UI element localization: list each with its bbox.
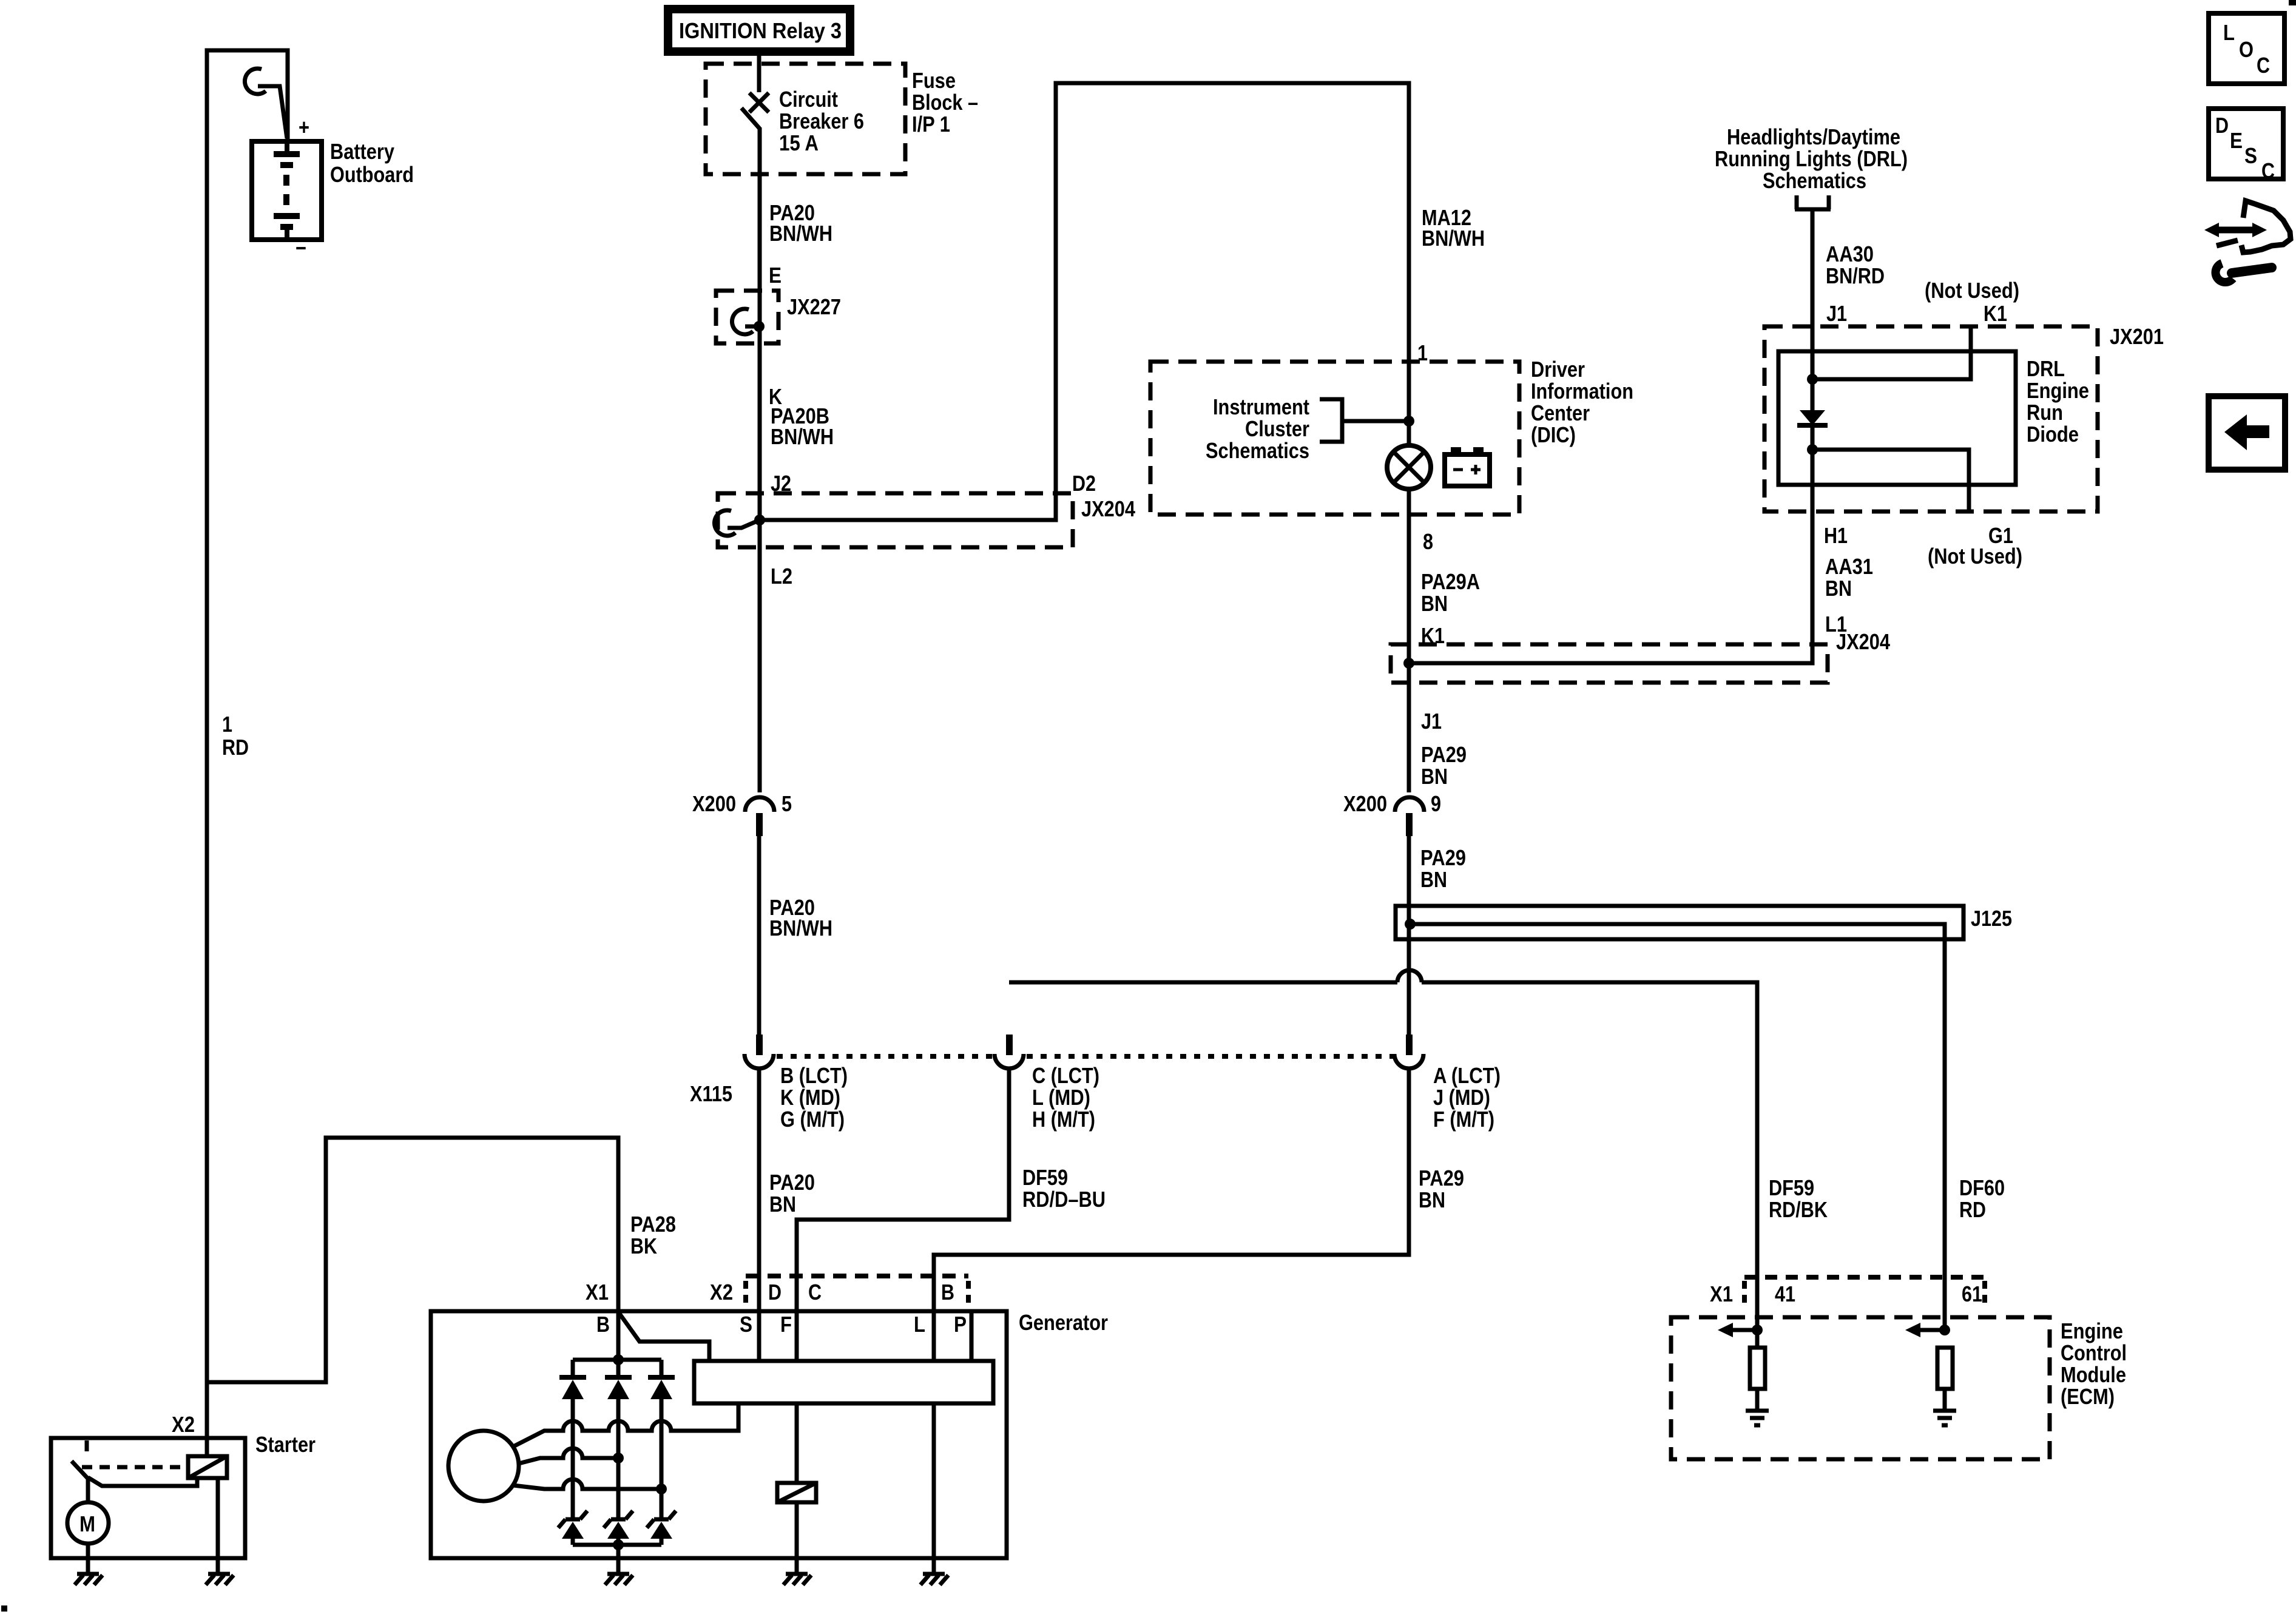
svg-text:JX204: JX204 — [1081, 496, 1135, 521]
svg-text:J (MD): J (MD) — [1433, 1085, 1490, 1110]
svg-text:P: P — [954, 1312, 967, 1337]
svg-text:1: 1 — [222, 712, 232, 737]
svg-text:B (LCT): B (LCT) — [780, 1063, 848, 1088]
svg-text:L1: L1 — [1825, 612, 1847, 636]
rectifier bottom bus — [573, 1543, 661, 1547]
svg-text:J1: J1 — [1826, 301, 1847, 326]
svg-text:G (M/T): G (M/T) — [780, 1107, 845, 1132]
starter solenoid — [205, 1382, 209, 1456]
generator box — [431, 1311, 1007, 1558]
svg-text:DRL: DRL — [2027, 356, 2065, 381]
battery symbol icon in DIC — [1445, 454, 1490, 486]
svg-text:BN: BN — [1419, 1187, 1445, 1212]
wire DF59 RD/BK to ECM — [1009, 981, 1397, 985]
svg-text:Information: Information — [1531, 379, 1633, 403]
junction JX227 — [754, 321, 765, 332]
page corner mark top right — [2289, 0, 2296, 5]
svg-text:BN: BN — [1421, 591, 1448, 616]
svg-text:K1: K1 — [1984, 301, 2007, 326]
svg-text:C: C — [2261, 158, 2275, 183]
svg-text:BN/WH: BN/WH — [769, 221, 832, 246]
diode module inner box — [1778, 351, 2016, 485]
svg-text:(Not Used): (Not Used) — [1928, 544, 2022, 569]
starter motor M — [86, 1477, 90, 1503]
connector X2 dashed bracket on generator — [746, 1274, 968, 1278]
G1 stub — [1807, 444, 1818, 455]
wire AA30 BN/RD — [1811, 209, 1815, 411]
svg-text:Schematics: Schematics — [1206, 438, 1309, 463]
svg-text:IGNITION Relay 3: IGNITION Relay 3 — [679, 18, 842, 43]
svg-text:M: M — [79, 1511, 95, 1536]
stator phase 1 — [513, 1403, 738, 1447]
svg-text:PA29: PA29 — [1420, 845, 1466, 870]
svg-text:DF59: DF59 — [1769, 1175, 1814, 1200]
svg-text:41: 41 — [1775, 1281, 1795, 1306]
svg-text:(ECM): (ECM) — [2061, 1384, 2115, 1409]
svg-text:−: − — [295, 235, 306, 260]
svg-text:D: D — [768, 1280, 782, 1305]
page corner mark — [1, 1605, 7, 1612]
rotor stator circle — [448, 1431, 519, 1501]
wire PA28 BK loop — [207, 1138, 618, 1382]
connector X115 cavity A — [1406, 1035, 1413, 1055]
svg-text:Circuit: Circuit — [779, 87, 838, 112]
svg-text:BN: BN — [1825, 576, 1852, 601]
splice JX204 second dashed box — [1391, 644, 1828, 683]
chassis ground starter solenoid — [206, 1574, 234, 1585]
voltage regulator box — [694, 1361, 993, 1403]
junction block J125 — [1396, 906, 1963, 939]
ECM input pin 61 — [1939, 1325, 1950, 1335]
svg-text:Center: Center — [1531, 400, 1590, 425]
zener diode Z2 — [604, 1511, 633, 1528]
svg-text:AA31: AA31 — [1825, 554, 1873, 579]
svg-text:L (MD): L (MD) — [1032, 1085, 1090, 1110]
svg-text:Control: Control — [2061, 1340, 2127, 1365]
svg-text:(DIC): (DIC) — [1531, 422, 1576, 447]
chassis ground generator rectifier — [605, 1574, 633, 1585]
svg-text:RD: RD — [222, 735, 249, 760]
svg-text:L: L — [914, 1312, 925, 1337]
svg-text:BN/WH: BN/WH — [769, 916, 832, 940]
indicator lamp (charge telltale) — [1387, 445, 1431, 489]
svg-text:X200: X200 — [1343, 791, 1387, 816]
svg-text:Cluster: Cluster — [1245, 416, 1309, 441]
wire to lamp junction — [1342, 419, 1409, 424]
svg-text:L: L — [2223, 20, 2235, 45]
connector X115 cavity B — [756, 1035, 763, 1055]
icon hand with arrow — [2216, 227, 2255, 234]
chassis ground generator L — [920, 1574, 948, 1585]
icon DESC box — [2209, 109, 2283, 179]
svg-text:BN: BN — [1421, 764, 1448, 789]
wire L below regulator to ground — [932, 1403, 936, 1573]
svg-text:Schematics: Schematics — [1763, 168, 1866, 193]
svg-text:I/P 1: I/P 1 — [912, 112, 950, 137]
wire PA20 BN/WH — [758, 127, 762, 792]
svg-text:BN/RD: BN/RD — [1826, 263, 1885, 288]
svg-text:PA29A: PA29A — [1421, 569, 1480, 594]
svg-text:X115: X115 — [690, 1081, 732, 1106]
svg-text:Starter: Starter — [255, 1432, 316, 1457]
icon LOC box — [2209, 13, 2284, 84]
svg-text:DF59: DF59 — [1022, 1165, 1068, 1190]
svg-text:61: 61 — [1962, 1281, 1982, 1306]
svg-text:PA29: PA29 — [1421, 742, 1467, 767]
svg-text:A (LCT): A (LCT) — [1433, 1063, 1501, 1088]
svg-text:Generator: Generator — [1019, 1310, 1108, 1335]
svg-text:9: 9 — [1431, 791, 1441, 816]
chassis ground starter motor — [75, 1574, 103, 1585]
rectifier diode D1 — [571, 1360, 575, 1377]
battery B1 Battery Outboard — [252, 141, 322, 240]
svg-text:C: C — [808, 1280, 822, 1305]
svg-text:Engine: Engine — [2061, 1318, 2123, 1343]
svg-text:RD/D–BU: RD/D–BU — [1022, 1187, 1106, 1212]
svg-text:Driver: Driver — [1531, 357, 1585, 382]
generator B stud link to regulator — [620, 1314, 709, 1361]
signal ground ECM 41 — [1746, 1411, 1769, 1425]
rectifier diode D3 — [660, 1360, 664, 1377]
svg-text:15 A: 15 A — [779, 130, 819, 155]
svg-text:S: S — [740, 1312, 752, 1337]
DRL diode — [1800, 410, 1825, 425]
svg-text:X1: X1 — [586, 1280, 609, 1305]
starter box — [51, 1438, 245, 1558]
splice JX204 dashed box — [718, 493, 1073, 547]
svg-text:Fuse: Fuse — [912, 68, 956, 93]
circuit breaker CB6 — [757, 52, 761, 92]
junction at lamp feed — [1403, 416, 1414, 427]
svg-text:RD: RD — [1959, 1197, 1986, 1222]
resistor in ECM pin 41 — [1750, 1348, 1765, 1389]
svg-text:Headlights/Daytime: Headlights/Daytime — [1727, 124, 1900, 149]
svg-text:8: 8 — [1423, 529, 1433, 554]
junction JX204 — [754, 515, 765, 525]
svg-text:Outboard: Outboard — [330, 162, 414, 187]
svg-text:Run: Run — [2027, 400, 2063, 425]
svg-text:(Not Used): (Not Used) — [1925, 278, 2019, 303]
connector X115 cavity C — [1006, 1035, 1013, 1055]
generator P stub — [970, 1311, 974, 1361]
svg-text:DF60: DF60 — [1959, 1175, 2005, 1200]
junction at JX204 K1/L1 — [1403, 658, 1414, 669]
Driver Information Center dashed box — [1150, 362, 1519, 515]
svg-text:Breaker 6: Breaker 6 — [779, 109, 864, 133]
svg-text:Instrument: Instrument — [1213, 394, 1309, 419]
off-page connector bracket — [1795, 195, 1831, 209]
zener diode Z3 — [647, 1511, 676, 1528]
svg-text:E: E — [769, 263, 782, 288]
svg-text:PA20: PA20 — [769, 1170, 815, 1195]
svg-text:B: B — [941, 1280, 954, 1305]
svg-text:5: 5 — [782, 791, 792, 816]
svg-text:B: B — [596, 1312, 610, 1337]
svg-text:S: S — [2244, 143, 2257, 168]
signal ground ECM 61 — [1933, 1411, 1956, 1425]
wire MA12 BN/WH — [760, 83, 1409, 520]
stator phase 2 — [519, 1448, 618, 1463]
wire DF59 RD/D-BU to generator F — [797, 1069, 1009, 1361]
svg-text:Block –: Block – — [912, 90, 978, 115]
svg-text:K (MD): K (MD) — [780, 1085, 840, 1110]
Engine Control Module dashed box — [1671, 1317, 2050, 1459]
svg-text:+: + — [299, 115, 309, 140]
wire PA20 below X200 — [757, 836, 761, 1035]
splice pack JX201 dashed box — [1764, 326, 2098, 511]
connector X1 of ECM dotted line — [1744, 1275, 1985, 1280]
splice crimp JX227 — [732, 309, 753, 334]
svg-text:X1: X1 — [1710, 1281, 1733, 1306]
resistor in ECM pin 61 — [1937, 1348, 1953, 1389]
svg-text:H (M/T): H (M/T) — [1032, 1107, 1095, 1132]
rectifier top bus — [573, 1358, 661, 1362]
K1 stub — [1812, 326, 1971, 379]
rectifier diode D2 — [616, 1360, 621, 1377]
svg-text:Battery: Battery — [330, 139, 394, 164]
svg-text:D: D — [2215, 113, 2229, 138]
svg-text:Module: Module — [2061, 1362, 2126, 1387]
svg-text:BN/WH: BN/WH — [1422, 226, 1485, 251]
zener diode Z1 — [558, 1511, 587, 1528]
svg-text:Diode: Diode — [2027, 422, 2079, 447]
svg-text:J125: J125 — [1971, 906, 2012, 931]
svg-text:F: F — [780, 1312, 792, 1337]
battery cells — [285, 141, 289, 154]
svg-text:X2: X2 — [710, 1280, 733, 1305]
power feed title box IGNITION Relay 3 — [668, 9, 850, 52]
wire PA20 BN to generator S — [757, 1069, 761, 1361]
svg-text:JX201: JX201 — [2110, 324, 2164, 349]
wire PA29A BN — [1407, 487, 1411, 792]
stator phase 3 — [513, 1479, 661, 1489]
svg-text:L2: L2 — [771, 564, 792, 589]
svg-text:H1: H1 — [1824, 523, 1848, 548]
ECM input pin 41 — [1752, 1325, 1763, 1335]
svg-text:O: O — [2239, 37, 2254, 62]
bracket to instrument cluster — [1320, 399, 1342, 442]
svg-text:Running Lights (DRL): Running Lights (DRL) — [1715, 146, 1908, 171]
splice crimp hook at battery positive — [245, 69, 266, 94]
splice crimp JX204 — [714, 510, 735, 536]
svg-text:BN/WH: BN/WH — [771, 424, 834, 449]
svg-text:F (M/T): F (M/T) — [1433, 1107, 1494, 1132]
svg-text:D2: D2 — [1072, 471, 1096, 496]
svg-text:Engine: Engine — [2027, 378, 2089, 403]
svg-text:BN: BN — [1420, 867, 1447, 892]
svg-text:JX227: JX227 — [787, 294, 841, 319]
svg-text:AA30: AA30 — [1826, 241, 1874, 266]
svg-text:PA28: PA28 — [630, 1212, 676, 1237]
field coil below regulator — [795, 1403, 799, 1483]
svg-text:BK: BK — [630, 1234, 657, 1258]
svg-text:C (LCT): C (LCT) — [1032, 1063, 1099, 1088]
fuse block dashed box — [706, 64, 905, 174]
svg-text:J1: J1 — [1421, 709, 1442, 734]
icon back arrow box — [2209, 396, 2285, 470]
svg-text:X2: X2 — [172, 1412, 195, 1437]
splice JX227 dashed box — [716, 291, 778, 343]
svg-text:RD/BK: RD/BK — [1769, 1197, 1828, 1222]
svg-text:PA29: PA29 — [1419, 1166, 1464, 1190]
chassis ground generator field — [783, 1574, 811, 1585]
svg-text:BN: BN — [769, 1192, 796, 1217]
svg-text:X200: X200 — [692, 791, 736, 816]
svg-text:E: E — [2230, 128, 2243, 153]
wire 1 RD battery positive cable — [207, 50, 288, 1438]
icon wrench — [2215, 263, 2233, 282]
wire AA31 link to splice — [1409, 425, 1812, 663]
wire PA29 BN to generator L — [934, 1069, 1409, 1361]
starter switch contact — [85, 1440, 89, 1451]
svg-text:C: C — [2257, 53, 2270, 78]
wire PA29 below X200 — [1407, 836, 1411, 1035]
